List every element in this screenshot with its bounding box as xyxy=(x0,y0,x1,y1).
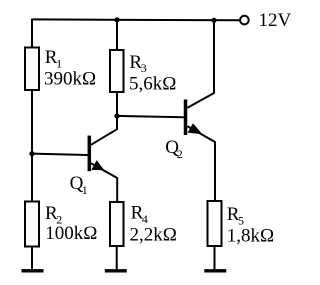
resistor R1 xyxy=(25,48,39,91)
svg-text:1,8kΩ: 1,8kΩ xyxy=(227,225,274,246)
svg-text:100kΩ: 100kΩ xyxy=(45,223,97,244)
node junction top middle xyxy=(114,17,119,22)
svg-text:1: 1 xyxy=(82,183,88,197)
svg-text:12V: 12V xyxy=(259,10,292,31)
resistor R3 xyxy=(110,50,124,92)
transistor Q2 xyxy=(186,20,216,202)
wire R4 to ground xyxy=(116,246,118,270)
transistor Q1 xyxy=(89,117,117,203)
ground G3 xyxy=(204,269,226,272)
wire left branch top xyxy=(31,19,33,48)
ground G1 xyxy=(22,269,44,272)
wire R3 to node C xyxy=(116,92,118,117)
wire Q2 base xyxy=(117,116,184,117)
ground G2 xyxy=(105,269,127,272)
terminal 12V xyxy=(240,16,249,25)
resistor R4 xyxy=(110,202,124,246)
svg-text:2: 2 xyxy=(177,147,183,161)
wire top supply rail xyxy=(31,18,240,21)
wire middle branch top xyxy=(116,19,118,50)
resistor R5 xyxy=(208,201,222,246)
node junction top right xyxy=(211,18,216,23)
node junction base Q1 xyxy=(29,151,34,156)
wire Q1 base xyxy=(32,154,88,155)
wire R1 to R2 xyxy=(31,90,33,202)
resistor R2 xyxy=(25,202,39,247)
wire R5 to ground xyxy=(214,246,216,270)
wire R2 to ground xyxy=(31,247,33,270)
svg-text:2,2kΩ: 2,2kΩ xyxy=(130,224,177,245)
svg-text:390kΩ: 390kΩ xyxy=(44,68,96,89)
svg-text:5,6kΩ: 5,6kΩ xyxy=(129,73,176,94)
node junction C xyxy=(114,113,119,118)
